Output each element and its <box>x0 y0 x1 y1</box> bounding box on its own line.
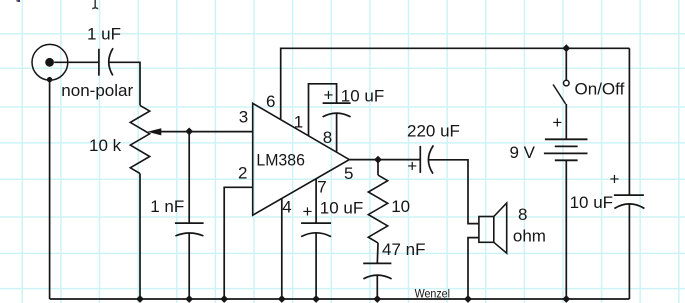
svg-text:ohm: ohm <box>513 227 546 246</box>
node: output / zobel junction <box>374 156 382 164</box>
svg-text:LM386: LM386 <box>256 151 305 170</box>
wiper arrow wire to pin 3 <box>147 128 252 135</box>
svg-text:1: 1 <box>294 112 303 131</box>
svg-text:7: 7 <box>317 177 326 196</box>
op-amp U1 LM386 <box>253 103 350 215</box>
svg-text:2: 2 <box>238 163 247 182</box>
wire junction down to C2 <box>188 131 190 223</box>
svg-text:8: 8 <box>323 128 332 147</box>
wire C6 to speaker <box>428 160 479 224</box>
capacitor C4 10 uF (pin 7 bypass) <box>301 223 331 299</box>
svg-text:+: + <box>303 202 313 221</box>
wire switch to battery <box>565 104 567 139</box>
svg-text:3: 3 <box>239 108 248 127</box>
input jack J1 <box>32 44 68 82</box>
svg-text:1 uF: 1 uF <box>87 25 121 44</box>
wire C1 to potentiometer top <box>109 62 140 105</box>
svg-text:+: + <box>552 113 562 132</box>
wire pin 4 to ground <box>281 199 283 300</box>
battery B1 9 V <box>544 139 588 160</box>
svg-text:10: 10 <box>391 197 410 216</box>
node: C5 / ground <box>373 295 381 303</box>
node: wiper / 1 nF junction <box>185 128 193 136</box>
svg-text:47 nF: 47 nF <box>382 240 425 259</box>
wire jack to C1 <box>54 61 98 63</box>
wire junction to switch <box>565 48 567 80</box>
svg-text:220 uF: 220 uF <box>407 122 460 141</box>
capacitor C2 1 nF <box>175 223 204 299</box>
wire pin 2 to ground <box>224 187 253 299</box>
svg-text:6: 6 <box>266 92 275 111</box>
svg-text:9 V: 9 V <box>510 143 536 162</box>
node: C2 / ground <box>185 295 193 303</box>
speaker LS1 8 ohm <box>479 203 507 253</box>
resistor R2 10 ohm <box>368 160 387 264</box>
capacitor C6 220 uF <box>420 145 433 173</box>
node: battery / ground <box>562 295 570 303</box>
svg-text:+: + <box>610 169 620 188</box>
wire pin 5 output to C6 <box>349 159 420 161</box>
svg-text:10 uF: 10 uF <box>341 86 384 105</box>
wire speaker to ground <box>468 238 479 299</box>
wire pin 6 riser and top rail <box>281 48 630 119</box>
svg-text:8: 8 <box>518 205 527 224</box>
svg-text:1 nF: 1 nF <box>150 197 184 216</box>
node: top rail / switch junction <box>562 44 570 52</box>
capacitor C7 10 uF (supply bypass) <box>614 195 645 299</box>
wire pin 1 bracket to C3 <box>309 84 337 136</box>
svg-text:10 k: 10 k <box>89 136 122 155</box>
wire pin 7 to C4 <box>315 179 317 223</box>
node: pin4 / ground <box>278 295 286 303</box>
node: pin2 / ground <box>220 295 228 303</box>
node: C4 / ground <box>312 295 320 303</box>
svg-text:Wenzel: Wenzel <box>415 287 450 301</box>
svg-text:+: + <box>407 156 417 175</box>
wire battery to ground <box>565 160 567 299</box>
switch S1 On/Off <box>553 80 569 104</box>
potentiometer R1 10 k <box>130 105 149 299</box>
svg-text:10 uF: 10 uF <box>320 199 363 218</box>
svg-text:+: + <box>324 86 334 105</box>
capacitor C1 1 uF non-polar <box>99 48 113 75</box>
svg-text:10 uF: 10 uF <box>570 193 613 212</box>
node: speaker / ground <box>464 295 472 303</box>
svg-text:4: 4 <box>282 198 291 217</box>
capacitor C5 47 nF <box>363 263 391 299</box>
svg-text:non-polar: non-polar <box>61 81 133 100</box>
capacitor C3 10 uF (gain, pins 1-8) <box>323 103 351 152</box>
I-beam text cursor (clipped at top) <box>92 0 98 9</box>
screen artifact dot top edge <box>16 0 20 2</box>
svg-text:5: 5 <box>344 164 353 183</box>
ground rail (bottom) <box>50 298 630 300</box>
left wire jack to ground rail <box>49 80 51 299</box>
node: pot / ground <box>136 295 144 303</box>
svg-text:On/Off: On/Off <box>575 80 625 99</box>
right rail top segment <box>628 48 630 195</box>
